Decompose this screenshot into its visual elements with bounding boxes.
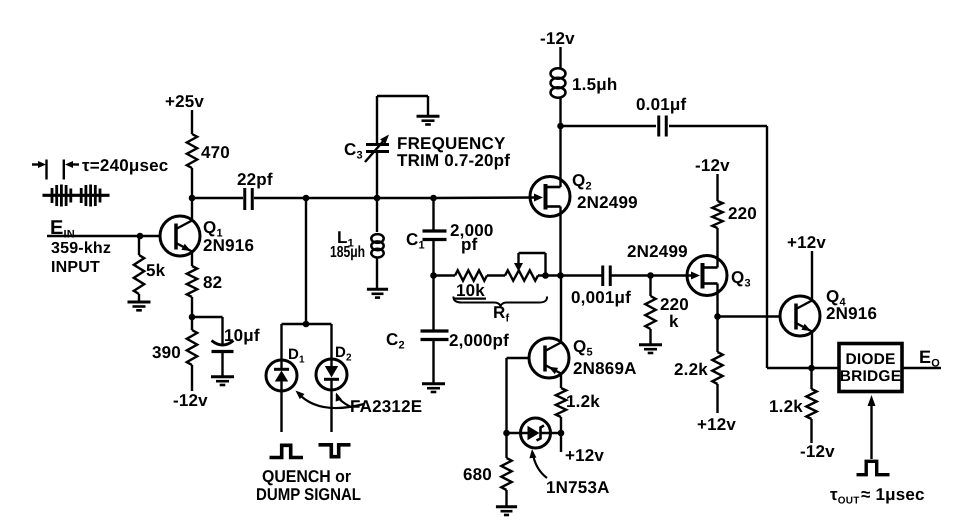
input timing arrow right — [64, 160, 79, 180]
resistor 82 — [187, 266, 223, 297]
wire main line — [306, 197, 377, 199]
label 2N2499 (Q2) — [577, 193, 638, 212]
wire to Q4 base — [718, 315, 781, 317]
label -12v (output) — [800, 442, 835, 461]
resistor 680 — [501, 433, 511, 506]
label -12v (under 390) — [173, 391, 208, 410]
svg-text:BRIDGE: BRIDGE — [840, 368, 901, 385]
wire Q5 collector — [560, 276, 562, 343]
resistor 10k — [455, 270, 487, 280]
wire Q4 collector — [811, 251, 813, 301]
svg-text:1.2k: 1.2k — [566, 392, 600, 411]
label L1 — [337, 228, 354, 250]
node Q3 source junction — [714, 313, 721, 320]
wire Q3 source — [716, 284, 718, 317]
label Rf — [493, 303, 509, 325]
pulse symbol output — [857, 461, 890, 474]
wire between resistors — [487, 274, 505, 276]
resistor 390 — [152, 317, 197, 391]
label 2N2499 (Q3) — [627, 242, 688, 261]
wire Q1 emitter — [191, 252, 193, 267]
label Q1 — [203, 218, 223, 240]
label Q4 — [826, 287, 846, 309]
label FREQUENCY TRIM — [397, 134, 510, 170]
wire zener right — [540, 432, 561, 434]
capacitor 0.01uf — [636, 95, 686, 137]
svg-text:DIODE: DIODE — [845, 351, 895, 368]
capacitor 0.001uf — [571, 266, 631, 308]
svg-text:TRIM 0.7-20pf: TRIM 0.7-20pf — [397, 151, 510, 170]
wire main line 2 — [377, 197, 434, 199]
resistor 2.2k — [712, 317, 722, 414]
ground above C3 — [417, 116, 440, 124]
svg-text:220: 220 — [728, 204, 757, 223]
transistor Q4 — [780, 296, 820, 336]
label -12v (Q3) — [695, 156, 730, 175]
resistor 1.2k (output) — [806, 368, 816, 443]
node emitter divider — [189, 314, 196, 321]
input burst waveform — [43, 185, 110, 207]
svg-text:10μf: 10μf — [224, 326, 260, 345]
label Q5 — [573, 337, 593, 359]
wire bridge output — [902, 367, 941, 369]
label +12v (zener) — [565, 446, 604, 465]
label +12v (Q4) — [787, 233, 826, 252]
transistor Q1 — [160, 216, 200, 256]
resistor 220 (Q3) — [712, 201, 757, 228]
callout arrows FA2312E — [296, 391, 365, 409]
label Q3 — [731, 268, 751, 290]
input timing arrow left — [32, 160, 47, 180]
svg-text:τ=240μsec: τ=240μsec — [82, 156, 168, 175]
svg-text:2.2k: 2.2k — [674, 360, 708, 379]
label 1.2k (output) — [769, 397, 803, 416]
svg-text:0.01μf: 0.01μf — [636, 95, 686, 114]
label Eo — [919, 347, 940, 370]
svg-text:470: 470 — [201, 143, 230, 162]
svg-text:5k: 5k — [146, 261, 166, 280]
svg-text:+12v: +12v — [697, 415, 736, 434]
diode bridge box — [839, 344, 902, 392]
wire 22pf to main line — [254, 197, 306, 199]
wire Q4 emitter — [811, 332, 813, 369]
node quench branch — [303, 195, 310, 202]
label FA2312E — [350, 397, 422, 416]
diode D1 — [266, 360, 297, 392]
wire drain node to 0.01uf — [561, 125, 657, 127]
wire to +12v (zener) — [560, 433, 562, 452]
zener diode 1N753A — [521, 418, 551, 448]
label 2000pf (C2) — [449, 331, 509, 350]
svg-text:2N916: 2N916 — [203, 236, 254, 255]
capacitor 10uf — [192, 317, 260, 376]
node output junction — [808, 365, 815, 372]
wire main line to Q2 gate — [434, 196, 537, 199]
capacitor C1 — [423, 198, 447, 276]
wire Rf left — [434, 274, 456, 276]
svg-text:+12v: +12v — [787, 233, 826, 252]
ground under L1 — [367, 289, 388, 297]
label 2N916 (Q1) — [203, 236, 254, 255]
label E_IN — [50, 217, 75, 241]
label D2 — [335, 344, 352, 364]
label 2000pf (C1) — [450, 221, 494, 254]
inductor 1.5uh — [551, 47, 566, 126]
label 1N753A — [546, 478, 610, 497]
svg-text:1.2k: 1.2k — [769, 397, 803, 416]
label C3 — [344, 140, 363, 162]
label DUMP SIGNAL — [256, 485, 361, 504]
inductor L1 — [371, 198, 383, 288]
pulse symbol positive — [270, 445, 304, 457]
wire quench horizontal — [282, 323, 332, 325]
wire 82 to node — [191, 297, 193, 317]
ground under 680 — [496, 507, 517, 515]
svg-text:1N753A: 1N753A — [546, 478, 610, 497]
svg-text:+12v: +12v — [565, 446, 604, 465]
ground under 5k — [128, 302, 151, 310]
diode D2 — [316, 359, 347, 390]
capacitor C2 — [421, 276, 449, 383]
wire corner to bridge — [767, 367, 838, 369]
label +12v (2.2k) — [697, 415, 736, 434]
wire zener left — [507, 432, 537, 434]
svg-text:-12v: -12v — [173, 391, 208, 410]
svg-text:680: 680 — [463, 465, 492, 484]
wire Rf node to cap — [561, 274, 602, 276]
node C1 branch — [430, 195, 437, 202]
transistor Q5 — [529, 338, 569, 378]
label tau=240usec — [82, 156, 168, 175]
potentiometer Rf wiper — [505, 253, 546, 281]
capacitor 22pf — [237, 170, 273, 210]
node 220k junction — [647, 272, 654, 279]
svg-text:2N916: 2N916 — [826, 304, 877, 323]
wire Q1 collector to node — [191, 198, 193, 221]
wire quench vertical — [305, 198, 307, 324]
label 1.5uh — [572, 75, 617, 94]
label 680 — [463, 465, 492, 484]
label 2.2k — [674, 360, 708, 379]
svg-text:359-khz: 359-khz — [51, 240, 111, 257]
resistor 5k — [134, 236, 166, 301]
wire 0.01uf to corner — [669, 125, 767, 127]
wire C3 top to ground — [377, 96, 428, 115]
svg-text:2N2499: 2N2499 — [627, 242, 688, 261]
node Q1 collector junction — [189, 195, 196, 202]
callout arrow 1N753A — [529, 449, 547, 478]
label +25v — [165, 92, 204, 111]
wire pot to Q2 source node — [538, 274, 561, 276]
node C1/Rf junction — [430, 272, 437, 279]
wire node to 22pf — [192, 197, 243, 199]
resistor 470 — [187, 134, 230, 198]
wire output vertical — [766, 126, 768, 368]
pulse symbol negative — [319, 445, 351, 457]
svg-text:-12v: -12v — [540, 29, 575, 48]
wire to D1 — [280, 324, 282, 370]
svg-text:FA2312E: FA2312E — [350, 397, 422, 416]
svg-text:185μh: 185μh — [330, 244, 365, 261]
label BRIDGE — [840, 368, 901, 385]
svg-text:2,000pf: 2,000pf — [449, 331, 509, 350]
svg-text:2N2499: 2N2499 — [577, 193, 638, 212]
label DIODE — [845, 351, 895, 368]
node input/5k junction — [137, 233, 144, 240]
node zener right — [558, 430, 565, 437]
svg-text:82: 82 — [203, 273, 222, 292]
wire Q3 drain — [716, 228, 718, 268]
wire Q2 source — [559, 207, 561, 276]
label Q2 — [572, 171, 592, 193]
label INPUT — [51, 259, 100, 276]
capacitor C3 trimmer — [365, 96, 389, 198]
wire D2 bottom — [330, 390, 332, 432]
svg-text:DUMP SIGNAL: DUMP SIGNAL — [256, 485, 361, 504]
label -12v (top) — [540, 29, 575, 48]
svg-text:QUENCH or: QUENCH or — [262, 467, 351, 486]
label 1.2k (Q5) — [566, 392, 600, 411]
wire 220 to -12v — [716, 174, 718, 201]
brace Rf — [453, 297, 547, 307]
label C1 — [406, 230, 425, 252]
transistor Q3 (FET) — [687, 256, 727, 296]
wire cap to Q3 gate — [611, 274, 694, 276]
svg-text:+25v: +25v — [165, 92, 204, 111]
resistor 1.2k (Q5) — [556, 388, 566, 433]
trigger arrow into bridge — [868, 395, 876, 459]
node pot right end — [542, 272, 549, 279]
svg-text:2N869A: 2N869A — [573, 359, 637, 378]
svg-text:0,001μf: 0,001μf — [571, 288, 631, 307]
label 359-khz — [51, 240, 111, 257]
svg-text:pf: pf — [461, 235, 478, 254]
label D1 — [288, 346, 305, 366]
transistor Q2 (FET) — [530, 177, 570, 217]
label 10k — [453, 281, 486, 300]
wire D1 bottom — [280, 390, 282, 432]
wire to D2 — [330, 324, 332, 367]
ground under C2 — [422, 384, 445, 392]
node quench tee — [303, 321, 310, 328]
label 2N869A — [573, 359, 637, 378]
wire to +25v — [191, 110, 193, 134]
label 220k — [660, 295, 689, 331]
label C2 — [386, 330, 405, 352]
svg-text:1.5μh: 1.5μh — [572, 75, 617, 94]
svg-text:-12v: -12v — [800, 442, 835, 461]
resistor 220k — [645, 276, 655, 344]
wire Q2 drain — [559, 126, 561, 187]
svg-text:INPUT: INPUT — [51, 259, 100, 276]
svg-text:390: 390 — [152, 343, 181, 362]
svg-text:k: k — [669, 312, 679, 331]
node Q2 drain — [557, 123, 564, 130]
label 185uh — [330, 244, 365, 261]
wire input to Q1 base — [47, 235, 160, 237]
node Q2 source junction — [557, 272, 564, 279]
wire Q5 base — [507, 358, 530, 433]
label tau_out — [830, 485, 925, 507]
ground under 10uf — [211, 377, 234, 385]
svg-text:22pf: 22pf — [237, 170, 273, 189]
label QUENCH or — [262, 467, 351, 486]
svg-text:≈ 1μsec: ≈ 1μsec — [861, 485, 925, 504]
node L1/C3 branch — [374, 195, 381, 202]
svg-text:10k: 10k — [456, 281, 485, 300]
node zener left — [503, 430, 510, 437]
wire Q5 emitter — [560, 374, 562, 389]
ground under 220k — [639, 345, 662, 353]
svg-text:-12v: -12v — [695, 156, 730, 175]
label 2N916 (Q4) — [826, 304, 877, 323]
